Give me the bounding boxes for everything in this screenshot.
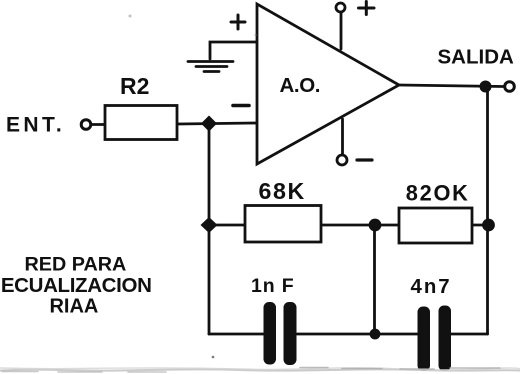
svg-text:RED PARA: RED PARA [24, 254, 126, 276]
svg-text:68K: 68K [259, 178, 306, 204]
svg-text:R2: R2 [120, 73, 149, 99]
svg-text:4n7: 4n7 [411, 276, 452, 298]
svg-text:1n F: 1n F [251, 275, 295, 297]
svg-text:ENT.: ENT. [6, 114, 65, 137]
svg-text:ECUALIZACION: ECUALIZACION [1, 274, 152, 297]
svg-text:A.O.: A.O. [280, 74, 321, 97]
svg-text:82OK: 82OK [406, 181, 470, 206]
svg-text:RIAA: RIAA [49, 296, 98, 318]
svg-text:SALIDA: SALIDA [438, 46, 515, 69]
